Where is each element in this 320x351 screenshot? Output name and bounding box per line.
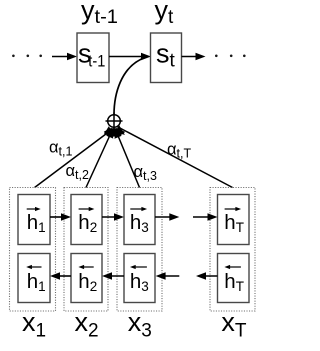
box h-backward T — [218, 254, 250, 303]
wire arrow gap back to h3 — [156, 272, 180, 279]
label h-forward 2 — [78, 207, 97, 235]
box h-forward 2 — [71, 195, 102, 245]
box s_t — [151, 33, 182, 83]
wire arrow hT back to gap — [196, 272, 218, 279]
wire alpha t,2 line with arrowhead to plus — [86, 128, 113, 188]
wire arrow into s_t-1 — [52, 53, 77, 60]
wire alpha t,1 line with arrowhead to plus — [35, 126, 115, 187]
label h-backward 2 — [78, 265, 97, 294]
wire arrow gap to hT — [193, 213, 218, 220]
wire alpha t,T line with arrowhead to plus — [115, 125, 232, 187]
label h-forward 3 — [130, 207, 149, 235]
box h-backward 1 — [18, 254, 50, 303]
label h-backward 1 — [26, 265, 45, 294]
dashed column box 3 — [117, 188, 162, 312]
dashed column box 1 — [10, 188, 56, 312]
node arrowhead cluster blob under plus — [104, 128, 125, 137]
label h-backward T — [224, 265, 244, 294]
box h-forward T — [218, 195, 250, 245]
wire curve from plus node to s_t input — [114, 57, 146, 115]
dashed column box 2 — [64, 188, 108, 312]
node right ellipsis dots — [215, 55, 246, 58]
node circle-plus — [106, 113, 123, 130]
wire arrow h2 to h3 — [102, 213, 124, 220]
wire arrow h2 back to h1 — [50, 272, 71, 279]
label h-forward 1 — [27, 207, 46, 235]
dashed column box T — [210, 188, 255, 312]
wire arrow h3 to gap — [155, 213, 179, 220]
node left ellipsis dots — [12, 55, 42, 58]
box h-forward 1 — [18, 195, 50, 245]
box s_t-1 — [77, 33, 109, 83]
box h-backward 3 — [124, 254, 155, 303]
wire alpha t,3 line with arrowhead to plus — [115, 128, 140, 188]
wire arrow h3 back to h2 — [102, 272, 124, 279]
box h-forward 3 — [124, 195, 155, 245]
box h-backward 2 — [71, 254, 102, 303]
wire arrow out of s_t — [182, 53, 206, 60]
label h-backward 3 — [130, 265, 149, 294]
wire arrow s_t-1 to s_t — [109, 53, 151, 60]
label h-forward T — [224, 207, 244, 235]
wire arrow h1 to h2 — [50, 213, 71, 220]
